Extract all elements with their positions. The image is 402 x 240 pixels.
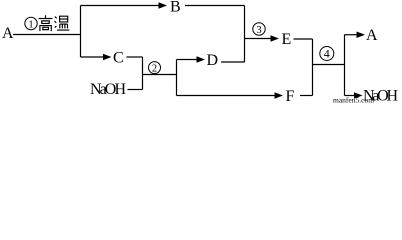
label circled 4: [320, 47, 334, 61]
wire C to merge: [127, 56, 143, 58]
wire A to branch: [13, 34, 81, 36]
svg-text:F: F: [286, 88, 295, 103]
wire connector 2: [143, 74, 177, 76]
wire branch vertical: [80, 6, 82, 58]
arrowhead to D: [197, 56, 206, 62]
arrowhead to E: [271, 35, 280, 41]
wire B to merge: [185, 5, 245, 7]
arrowhead to B: [159, 2, 168, 8]
label wen (Chinese: temperature): [54, 16, 69, 30]
svg-text:E: E: [282, 31, 292, 48]
wire merge vertical B-D: [244, 6, 246, 63]
wire E to merge: [294, 38, 313, 40]
label gao (Chinese: high): [39, 15, 53, 31]
svg-text:3: 3: [256, 25, 261, 36]
svg-text:D: D: [207, 52, 219, 69]
arrowhead to F: [275, 92, 284, 98]
svg-text:2: 2: [152, 63, 157, 74]
svg-text:A: A: [2, 25, 14, 42]
label circled 2: [149, 62, 161, 75]
wire NaOH1 to merge: [128, 89, 143, 91]
svg-text:4: 4: [324, 47, 330, 61]
label circled 3: [253, 23, 265, 36]
arrowhead to A2: [357, 32, 366, 38]
wire connector 4: [313, 64, 345, 66]
svg-text:NaOH: NaOH: [90, 81, 126, 98]
wire merge vertical E-F: [312, 39, 314, 96]
svg-text:B: B: [170, 0, 181, 16]
svg-text:C: C: [113, 50, 124, 67]
arrowhead to NaOH2: [354, 92, 363, 98]
svg-text:1: 1: [28, 19, 33, 30]
wire to B: [81, 5, 160, 7]
wire merge vertical C-NaOH: [142, 57, 144, 90]
arrowhead to C: [103, 54, 112, 60]
svg-text:A: A: [366, 27, 378, 44]
wire arrow to NaOH2: [345, 95, 356, 97]
wire arrow to A2: [345, 34, 358, 36]
wire bracket vertical right: [344, 35, 346, 96]
wire arrow to C: [81, 56, 105, 58]
wire D to merge: [221, 61, 245, 63]
label circled 1: [25, 17, 37, 30]
svg-text:NaOH: NaOH: [363, 88, 398, 104]
wire bracket vertical D-F: [176, 60, 178, 96]
wire arrow to F: [177, 95, 276, 97]
wire arrow 3 to E: [245, 38, 272, 40]
wire arrow to D: [177, 59, 198, 61]
wire F to merge: [300, 95, 313, 97]
